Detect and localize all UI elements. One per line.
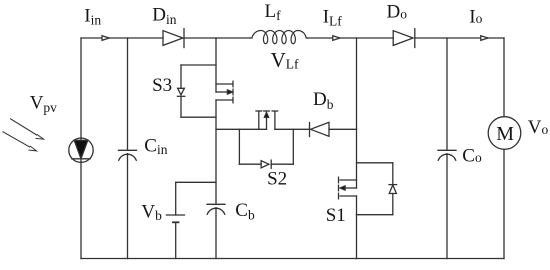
current arrow Iin xyxy=(102,36,109,41)
svg-text:Db: Db xyxy=(313,89,334,112)
svg-text:Vpv: Vpv xyxy=(30,92,57,115)
PV source xyxy=(69,138,93,162)
svg-text:S1: S1 xyxy=(326,205,346,226)
wire S3 loop left upper xyxy=(180,65,182,88)
wire below Cb xyxy=(215,208,217,259)
svg-text:Cin: Cin xyxy=(144,135,167,157)
svg-text:Lf: Lf xyxy=(265,1,282,23)
mosfet S1 xyxy=(339,177,357,199)
capacitor Cb xyxy=(207,204,225,214)
wire S3 loop top xyxy=(181,64,216,66)
wire right vertical xyxy=(503,38,505,259)
svg-text:Do: Do xyxy=(387,2,408,23)
wire S1 loop right lower xyxy=(392,194,394,215)
svg-text:ILf: ILf xyxy=(323,6,343,28)
wire top rail right segment xyxy=(415,37,504,39)
svg-text:Co: Co xyxy=(462,145,482,166)
wire right-mid vertical lower xyxy=(356,196,358,259)
wire Vb branch top xyxy=(176,181,216,183)
wire S3 loop bottom xyxy=(181,116,216,118)
capacitor Cin xyxy=(119,150,137,160)
wire S2 loop right xyxy=(292,129,294,164)
wire Cin branch top xyxy=(127,38,129,150)
wire right-mid vertical upper xyxy=(356,38,358,188)
current arrow Io xyxy=(481,36,488,41)
wire S1 loop bottom xyxy=(357,214,393,216)
wire S1 loop top xyxy=(357,162,393,164)
svg-text:S3: S3 xyxy=(152,75,172,96)
motor M circle xyxy=(488,117,521,150)
diode S1 body xyxy=(389,185,397,194)
diode S3 body xyxy=(177,88,184,96)
mosfet S3 xyxy=(216,81,233,103)
svg-text:Vo: Vo xyxy=(528,117,549,138)
svg-text:M: M xyxy=(496,123,514,145)
svg-text:Din: Din xyxy=(152,5,176,27)
wire S1 loop right upper xyxy=(392,163,394,185)
capacitor Co xyxy=(438,150,456,160)
PV light arrow 1 xyxy=(11,119,44,139)
wire Co branch bottom xyxy=(446,154,448,259)
wire left vertical xyxy=(80,38,82,259)
svg-text:Vb: Vb xyxy=(141,201,162,223)
diode Din xyxy=(163,29,184,48)
wire top rail mid segment xyxy=(185,37,250,39)
wire middle vertical upper (S3 drain) xyxy=(215,38,217,92)
wire Vb branch vertical xyxy=(175,182,177,215)
wire Db to right vertical xyxy=(329,128,357,130)
wire top rail after coil xyxy=(308,37,394,39)
inductor Lf xyxy=(250,31,308,44)
svg-text:Iin: Iin xyxy=(84,5,101,27)
svg-text:Io: Io xyxy=(469,6,482,27)
wire top rail left segment xyxy=(81,37,163,39)
wire Cin branch bottom xyxy=(127,154,129,259)
wire Co branch top xyxy=(446,38,448,150)
battery Vb xyxy=(166,215,184,222)
wire S3 loop left lower xyxy=(180,96,182,117)
mosfet S2 xyxy=(256,111,278,129)
svg-text:VLf: VLf xyxy=(271,48,299,72)
wire S2 row left xyxy=(216,128,267,130)
diode Do xyxy=(393,29,415,48)
wire S2 row right xyxy=(275,128,310,130)
diode S2 body xyxy=(261,160,271,168)
wire middle vertical lower (S3 source down) xyxy=(215,100,217,204)
svg-text:Cb: Cb xyxy=(235,200,255,222)
wire S2 loop left xyxy=(238,129,240,164)
PV light arrow 2 xyxy=(3,132,37,151)
wire S2 loop bottom right xyxy=(271,163,293,165)
diode Db xyxy=(310,122,330,136)
svg-text:S2: S2 xyxy=(267,168,287,189)
wire bottom rail xyxy=(81,258,504,260)
current arrow ILf xyxy=(333,36,340,41)
wire below Vb xyxy=(175,222,177,258)
wire S2 loop bottom left xyxy=(239,163,261,165)
